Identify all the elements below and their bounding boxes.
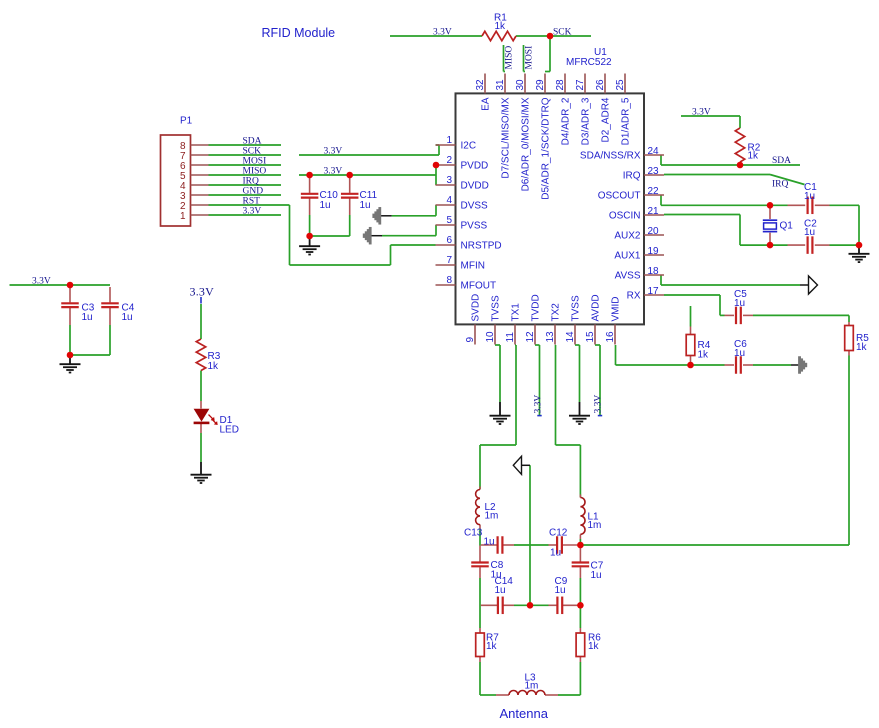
svg-text:SDA/NSS/RX: SDA/NSS/RX bbox=[580, 151, 641, 162]
svg-text:13: 13 bbox=[545, 331, 556, 343]
svg-text:23: 23 bbox=[648, 166, 660, 177]
svg-text:RX: RX bbox=[627, 291, 641, 302]
svg-text:25: 25 bbox=[615, 79, 626, 91]
svg-text:D3/ADR_3: D3/ADR_3 bbox=[580, 97, 591, 145]
svg-text:26: 26 bbox=[595, 79, 606, 91]
svg-text:5: 5 bbox=[446, 215, 452, 226]
svg-text:IRQ: IRQ bbox=[623, 171, 641, 182]
svg-text:1u: 1u bbox=[360, 200, 371, 211]
svg-text:1u: 1u bbox=[555, 585, 566, 596]
svg-text:D2_ADR4: D2_ADR4 bbox=[600, 97, 611, 142]
svg-text:AVSS: AVSS bbox=[615, 271, 641, 282]
svg-text:1u: 1u bbox=[550, 548, 561, 559]
svg-text:D7/SCL/MISO/MX: D7/SCL/MISO/MX bbox=[500, 97, 511, 178]
svg-text:1m: 1m bbox=[485, 511, 499, 522]
svg-text:TX1: TX1 bbox=[510, 303, 521, 322]
svg-text:TVSS: TVSS bbox=[490, 295, 501, 321]
svg-text:MISO: MISO bbox=[505, 46, 515, 70]
svg-text:P1: P1 bbox=[180, 116, 193, 127]
svg-text:SVDD: SVDD bbox=[470, 294, 481, 322]
svg-text:7: 7 bbox=[446, 255, 452, 266]
svg-text:1u: 1u bbox=[804, 227, 815, 238]
svg-text:PVDD: PVDD bbox=[461, 161, 489, 172]
svg-text:8: 8 bbox=[446, 275, 452, 286]
svg-text:SCK: SCK bbox=[553, 28, 572, 38]
svg-text:3.3V: 3.3V bbox=[243, 207, 262, 217]
svg-text:D5/ADR_1/SCK/DTRQ: D5/ADR_1/SCK/DTRQ bbox=[540, 97, 551, 199]
svg-text:MFIN: MFIN bbox=[461, 261, 485, 272]
svg-text:1u: 1u bbox=[320, 200, 331, 211]
svg-text:29: 29 bbox=[535, 79, 546, 91]
svg-text:16: 16 bbox=[605, 331, 616, 343]
svg-text:3.3V: 3.3V bbox=[692, 108, 711, 118]
svg-text:AUX1: AUX1 bbox=[614, 251, 641, 262]
svg-text:1m: 1m bbox=[525, 681, 539, 692]
svg-text:31: 31 bbox=[495, 79, 506, 91]
svg-text:30: 30 bbox=[515, 79, 526, 91]
svg-text:MISO: MISO bbox=[243, 167, 267, 177]
svg-text:D1/ADR_5: D1/ADR_5 bbox=[620, 97, 631, 145]
svg-text:Antenna: Antenna bbox=[500, 706, 549, 721]
svg-text:IRQ: IRQ bbox=[243, 177, 260, 187]
svg-text:11: 11 bbox=[505, 332, 516, 343]
svg-text:19: 19 bbox=[648, 246, 660, 257]
svg-text:C13: C13 bbox=[464, 528, 483, 539]
svg-text:15: 15 bbox=[585, 331, 596, 343]
svg-text:1u: 1u bbox=[122, 312, 133, 323]
svg-text:TVSS: TVSS bbox=[570, 295, 581, 321]
svg-text:20: 20 bbox=[648, 226, 660, 237]
svg-text:1k: 1k bbox=[486, 641, 498, 652]
svg-text:3.3V: 3.3V bbox=[324, 167, 343, 177]
svg-text:EA: EA bbox=[480, 97, 491, 111]
svg-text:3: 3 bbox=[446, 175, 452, 186]
svg-text:1: 1 bbox=[446, 135, 452, 146]
svg-text:1k: 1k bbox=[856, 342, 868, 353]
svg-text:12: 12 bbox=[525, 331, 536, 343]
svg-text:D6/ADR_0/MOSI/MX: D6/ADR_0/MOSI/MX bbox=[520, 97, 531, 191]
svg-text:SDA: SDA bbox=[772, 156, 791, 166]
svg-text:1k: 1k bbox=[588, 641, 600, 652]
svg-text:Q1: Q1 bbox=[780, 221, 794, 232]
svg-text:3.3V: 3.3V bbox=[324, 147, 343, 157]
svg-text:NRSTPD: NRSTPD bbox=[461, 241, 502, 252]
svg-text:3.3V: 3.3V bbox=[433, 28, 452, 38]
svg-text:GND: GND bbox=[243, 187, 264, 197]
svg-text:2: 2 bbox=[446, 155, 452, 166]
svg-text:TVDD: TVDD bbox=[530, 294, 541, 321]
svg-text:24: 24 bbox=[648, 146, 660, 157]
svg-text:6: 6 bbox=[446, 235, 452, 246]
svg-text:1k: 1k bbox=[495, 21, 507, 32]
svg-text:1u: 1u bbox=[591, 570, 602, 581]
svg-text:1k: 1k bbox=[748, 151, 760, 162]
svg-text:1u: 1u bbox=[82, 312, 93, 323]
svg-text:MFOUT: MFOUT bbox=[461, 281, 497, 292]
svg-text:IRQ: IRQ bbox=[772, 180, 789, 190]
svg-text:4: 4 bbox=[446, 195, 452, 206]
svg-text:3.3V: 3.3V bbox=[533, 395, 543, 414]
svg-text:3.3V: 3.3V bbox=[190, 285, 215, 299]
svg-text:AVDD: AVDD bbox=[590, 294, 601, 321]
svg-text:1: 1 bbox=[180, 211, 186, 222]
svg-text:SDA: SDA bbox=[243, 137, 262, 147]
svg-text:32: 32 bbox=[475, 79, 486, 91]
svg-text:1k: 1k bbox=[208, 361, 220, 372]
svg-text:17: 17 bbox=[648, 286, 660, 297]
svg-text:D4/ADR_2: D4/ADR_2 bbox=[560, 97, 571, 145]
svg-text:3.3V: 3.3V bbox=[594, 395, 604, 414]
svg-text:OSCOUT: OSCOUT bbox=[598, 191, 641, 202]
svg-text:VMID: VMID bbox=[610, 297, 621, 322]
svg-text:1m: 1m bbox=[588, 520, 602, 531]
svg-text:SCK: SCK bbox=[243, 147, 262, 157]
svg-text:18: 18 bbox=[648, 266, 660, 277]
svg-text:9: 9 bbox=[465, 337, 476, 343]
svg-text:1k: 1k bbox=[698, 350, 710, 361]
svg-text:1u: 1u bbox=[734, 348, 745, 359]
svg-text:3.3V: 3.3V bbox=[32, 277, 51, 287]
svg-text:I2C: I2C bbox=[461, 141, 477, 152]
svg-text:14: 14 bbox=[565, 331, 576, 343]
svg-text:LED: LED bbox=[220, 425, 239, 436]
svg-text:RFID Module: RFID Module bbox=[262, 26, 336, 40]
svg-text:28: 28 bbox=[555, 79, 566, 91]
svg-text:RST: RST bbox=[243, 197, 261, 207]
svg-text:DVSS: DVSS bbox=[461, 201, 489, 212]
svg-text:MFRC522: MFRC522 bbox=[566, 57, 612, 68]
svg-text:27: 27 bbox=[575, 79, 586, 91]
svg-text:TX2: TX2 bbox=[550, 303, 561, 322]
svg-text:10: 10 bbox=[485, 331, 496, 343]
svg-text:MOSI: MOSI bbox=[243, 157, 267, 167]
svg-text:21: 21 bbox=[648, 206, 660, 217]
svg-text:PVSS: PVSS bbox=[461, 221, 488, 232]
svg-text:AUX2: AUX2 bbox=[614, 231, 641, 242]
svg-text:MOSI: MOSI bbox=[525, 46, 535, 70]
svg-text:1u: 1u bbox=[484, 537, 495, 548]
svg-text:DVDD: DVDD bbox=[461, 181, 489, 192]
svg-text:C12: C12 bbox=[549, 528, 568, 539]
svg-text:1u: 1u bbox=[734, 298, 745, 309]
svg-text:1u: 1u bbox=[495, 585, 506, 596]
svg-text:22: 22 bbox=[648, 186, 660, 197]
svg-text:OSCIN: OSCIN bbox=[609, 211, 641, 222]
svg-text:1u: 1u bbox=[804, 191, 815, 202]
